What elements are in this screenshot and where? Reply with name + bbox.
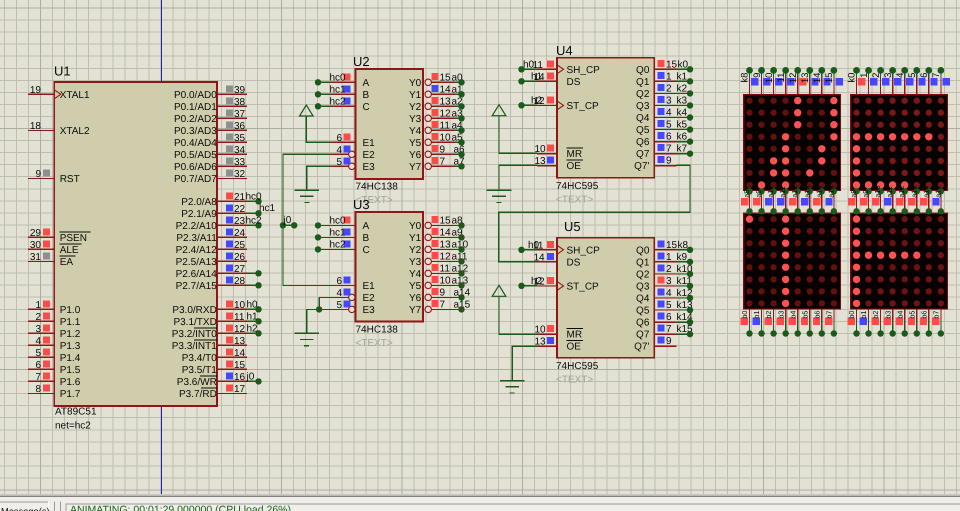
DM1 top pin net 11 bbox=[776, 67, 795, 95]
wire stub net on P2.6 bbox=[247, 270, 262, 276]
wire stub net a6 bbox=[455, 151, 465, 157]
DM3 bottom pin net b7 bbox=[824, 309, 837, 337]
svg-text:b1: b1 bbox=[752, 311, 761, 319]
wire stub net a3 bbox=[455, 115, 465, 121]
DM4 bottom pin net b5 bbox=[907, 309, 920, 337]
U2 enable pin E2 (pin 4) bbox=[331, 145, 375, 161]
U1 pin 10 (P3.0/RXD) bbox=[172, 300, 246, 316]
U3 output pin Y5 (pin 10, net a13) bbox=[409, 275, 469, 292]
svg-text:P2.5/A13: P2.5/A13 bbox=[176, 257, 218, 268]
svg-text:P0.2/AD2: P0.2/AD2 bbox=[174, 114, 217, 125]
svg-text:4: 4 bbox=[666, 108, 672, 119]
U2 output pin Y2 (pin 13, net a2) bbox=[409, 96, 463, 113]
svg-text:b6: b6 bbox=[919, 311, 928, 319]
U4 pin 10 (MR) bbox=[535, 144, 584, 160]
wire stub net k10 bbox=[677, 271, 694, 277]
svg-text:Q1: Q1 bbox=[636, 77, 650, 88]
U5 pin 10 (MR) bbox=[535, 325, 584, 341]
U2 enable pin E1 (pin 6) bbox=[331, 133, 375, 149]
svg-text:Q2: Q2 bbox=[636, 89, 650, 100]
svg-text:11: 11 bbox=[776, 73, 787, 83]
U1 pin 8 (P1.7) bbox=[28, 384, 81, 400]
svg-text:C: C bbox=[363, 245, 370, 256]
svg-text:4: 4 bbox=[35, 336, 41, 347]
wire U2.E2 to U3.E1 (net j0) bbox=[283, 154, 331, 285]
wire stub net hc0 at U3.A bbox=[315, 215, 346, 228]
U3 output pin Y3 (pin 12, net a11) bbox=[409, 251, 468, 268]
svg-text:Q5: Q5 bbox=[636, 125, 650, 136]
svg-text:24: 24 bbox=[234, 228, 246, 239]
U1 pin 1 (P1.0) bbox=[28, 300, 81, 316]
svg-text:10: 10 bbox=[234, 300, 246, 311]
svg-text:7: 7 bbox=[440, 156, 446, 167]
svg-text:4: 4 bbox=[666, 288, 672, 299]
DM1 top pin net 10 bbox=[764, 67, 783, 95]
svg-text:Q7': Q7' bbox=[634, 342, 649, 353]
svg-text:P3.7/RD: P3.7/RD bbox=[179, 389, 217, 400]
svg-text:5: 5 bbox=[666, 120, 672, 131]
wire stub net k1 bbox=[677, 78, 694, 84]
svg-text:19: 19 bbox=[30, 85, 42, 96]
U3 output pin Y7 (pin 7, net a15) bbox=[409, 299, 471, 316]
wire stub net hc1 at U2.B bbox=[315, 84, 346, 97]
svg-text:hc2: hc2 bbox=[330, 239, 347, 250]
U1 pin 32 (P0.7/AD7) bbox=[174, 169, 247, 185]
svg-text:Y2: Y2 bbox=[409, 102, 422, 113]
svg-text:15: 15 bbox=[440, 215, 452, 226]
svg-text:E2: E2 bbox=[363, 150, 376, 161]
DM1 top pin net 13 bbox=[800, 67, 819, 95]
svg-text:P1.4: P1.4 bbox=[60, 353, 81, 364]
ground symbol below U2 bbox=[295, 190, 320, 202]
U1 pin 7 (P1.6) bbox=[28, 372, 81, 388]
DM1/DM3 middle pin net a15 bbox=[825, 186, 837, 215]
U4 output pin Q0 (pin 15) bbox=[636, 59, 688, 76]
svg-text:21: 21 bbox=[234, 192, 246, 203]
svg-text:DS: DS bbox=[567, 257, 581, 268]
svg-text:2: 2 bbox=[666, 83, 672, 94]
svg-text:3: 3 bbox=[666, 276, 672, 287]
svg-text:30: 30 bbox=[30, 240, 42, 251]
svg-text:k8: k8 bbox=[740, 73, 751, 83]
DM2/DM4 middle pin net a13 bbox=[908, 186, 920, 215]
svg-text:P3.2/INT0: P3.2/INT0 bbox=[172, 329, 217, 340]
junction node j0 bbox=[280, 222, 298, 228]
wire power to U4.MR bbox=[499, 116, 537, 154]
svg-text:Q2: Q2 bbox=[636, 269, 650, 280]
svg-text:74HC138: 74HC138 bbox=[356, 182, 399, 193]
svg-text:a10: a10 bbox=[766, 186, 775, 198]
svg-text:E2: E2 bbox=[363, 293, 376, 304]
U5 output pin Q0 (pin 15) bbox=[636, 240, 688, 256]
svg-text:17: 17 bbox=[234, 384, 246, 395]
U1 pin 19 (XTAL1) bbox=[28, 85, 90, 101]
U1 pin 29 (PSEN) bbox=[28, 228, 91, 244]
svg-text:Q1: Q1 bbox=[636, 257, 650, 268]
svg-text:Y6: Y6 bbox=[409, 150, 422, 161]
svg-text:OE: OE bbox=[567, 342, 582, 353]
DM1 top pin net 9 bbox=[752, 67, 771, 95]
svg-text:E3: E3 bbox=[363, 162, 376, 173]
U3 enable pin E2 (pin 4) bbox=[331, 288, 375, 304]
svg-text:10: 10 bbox=[764, 73, 775, 84]
U1 pin 2 (P1.1) bbox=[28, 312, 81, 328]
svg-text:ST_CP: ST_CP bbox=[567, 281, 600, 292]
DM4 bottom pin net b0 bbox=[847, 309, 860, 337]
svg-text:a14: a14 bbox=[921, 186, 930, 198]
svg-text:P2.2/A10: P2.2/A10 bbox=[176, 221, 218, 232]
U1 pin 16 (P3.6/WR) bbox=[177, 372, 247, 388]
svg-text:6: 6 bbox=[919, 73, 930, 78]
U4 output pin Q7 (pin 7) bbox=[636, 144, 687, 161]
U1 pin 30 (ALE) bbox=[28, 240, 82, 256]
svg-text:5: 5 bbox=[907, 73, 918, 78]
wire stub + net label h0 on P3.0/RXD bbox=[247, 299, 262, 312]
svg-text:P3.0/RXD: P3.0/RXD bbox=[172, 305, 216, 316]
svg-text:P0.4/AD4: P0.4/AD4 bbox=[174, 138, 217, 149]
LED matrix DM4 (bottom-right) body bbox=[851, 213, 948, 309]
svg-text:13: 13 bbox=[800, 73, 811, 84]
U1 pin 37 (P0.2/AD2) bbox=[174, 109, 247, 125]
U1 pin 23 (P2.2/A10) bbox=[176, 216, 247, 232]
U3 &lt;TEXT&gt; label bbox=[356, 338, 393, 349]
svg-text:Y4: Y4 bbox=[409, 269, 422, 280]
svg-text:32: 32 bbox=[234, 169, 246, 180]
U1 pin 36 (P0.3/AD3) bbox=[174, 121, 247, 137]
svg-text:P1.3: P1.3 bbox=[60, 341, 81, 352]
U3 input pin A bbox=[331, 216, 370, 232]
U2 output pin Y0 (pin 15, net a0) bbox=[409, 72, 463, 89]
svg-text:4: 4 bbox=[895, 73, 906, 78]
svg-text:14: 14 bbox=[234, 348, 246, 359]
svg-text:36: 36 bbox=[234, 121, 246, 132]
wire stub net k6 bbox=[677, 138, 694, 144]
DM2/DM4 middle pin net a12 bbox=[896, 186, 908, 215]
svg-text:15: 15 bbox=[824, 73, 835, 84]
wire stub net k14 bbox=[677, 319, 694, 325]
wire stub net a11 bbox=[455, 258, 465, 264]
svg-text:k0: k0 bbox=[847, 73, 858, 83]
svg-text:2: 2 bbox=[35, 312, 41, 323]
svg-text:Q7': Q7' bbox=[634, 161, 649, 172]
svg-text:5: 5 bbox=[336, 157, 342, 168]
U2 output pin Y7 (pin 7, net a7) bbox=[409, 156, 465, 173]
wire stub + net label j0 on P3.6/WR bbox=[246, 371, 262, 384]
svg-text:hc0: hc0 bbox=[330, 215, 347, 226]
svg-text:P2.7/A15: P2.7/A15 bbox=[176, 281, 218, 292]
wire stub at U4 input bbox=[518, 78, 537, 84]
U2 output pin Y5 (pin 10, net a5) bbox=[409, 132, 463, 149]
svg-text:a13: a13 bbox=[909, 186, 918, 198]
U4 pin 12 (ST_CP) bbox=[531, 95, 599, 112]
DM2/DM4 middle pin net a8 bbox=[848, 188, 860, 214]
svg-text:74HC595: 74HC595 bbox=[556, 361, 599, 372]
IC U3 74HC138 body bbox=[356, 212, 424, 322]
U5 &lt;TEXT&gt; label bbox=[556, 375, 593, 386]
svg-text:hc2: hc2 bbox=[330, 96, 347, 107]
svg-text:16: 16 bbox=[234, 372, 246, 383]
U2 output pin Y4 (pin 11, net a4) bbox=[409, 120, 463, 137]
svg-text:22: 22 bbox=[234, 204, 246, 215]
U1 pin 33 (P0.6/AD6) bbox=[174, 157, 247, 173]
svg-text:18: 18 bbox=[30, 121, 42, 132]
U1 pin 26 (P2.5/A13) bbox=[176, 252, 247, 268]
U3 output pin Y0 (pin 15, net a8) bbox=[409, 215, 463, 232]
svg-text:9: 9 bbox=[666, 156, 672, 167]
svg-text:2: 2 bbox=[871, 73, 882, 78]
svg-text:Q6: Q6 bbox=[636, 318, 650, 329]
DM3 bottom pin net b0 bbox=[740, 309, 753, 337]
svg-text:5: 5 bbox=[666, 300, 672, 311]
svg-text:a15: a15 bbox=[933, 186, 942, 198]
wire stub net k12 bbox=[677, 295, 694, 301]
svg-text:13: 13 bbox=[440, 96, 452, 107]
U4 &lt;TEXT&gt; label bbox=[556, 195, 593, 206]
U5 output pin Q7' (pin 9) bbox=[634, 336, 676, 353]
svg-text:Y5: Y5 bbox=[409, 138, 422, 149]
U5 output pin Q3 (pin 3) bbox=[636, 276, 692, 293]
svg-text:XTAL2: XTAL2 bbox=[60, 126, 90, 137]
svg-text:Y6: Y6 bbox=[409, 293, 422, 304]
svg-text:37: 37 bbox=[234, 109, 246, 120]
svg-text:38: 38 bbox=[234, 97, 246, 108]
DM1/DM3 middle pin net a14 bbox=[813, 186, 825, 215]
wire U4.Q7' to U5.DS bbox=[499, 165, 690, 262]
svg-text:13: 13 bbox=[234, 336, 246, 347]
DM1/DM3 middle pin net a8 bbox=[741, 188, 753, 214]
svg-text:9: 9 bbox=[440, 144, 446, 155]
U5 pin 11 (SH_CP) bbox=[528, 240, 600, 256]
U5 output pin Q2 (pin 2) bbox=[636, 264, 693, 281]
svg-text:C: C bbox=[363, 102, 370, 113]
U2 enable pin E3 (pin 5) bbox=[331, 157, 375, 173]
svg-text:h1: h1 bbox=[247, 311, 259, 322]
U4 part number 74HC595 bbox=[556, 181, 599, 192]
DM2/DM4 middle pin net a15 bbox=[932, 186, 944, 215]
svg-text:a15: a15 bbox=[826, 186, 835, 198]
U4 pin 14 (DS) bbox=[531, 71, 581, 88]
U3 input pin B bbox=[331, 228, 370, 244]
net label hc1 bbox=[259, 203, 276, 214]
wire stub net k11 bbox=[677, 283, 694, 289]
svg-text:P2.0/A8: P2.0/A8 bbox=[181, 197, 217, 208]
wire stub at U4 input bbox=[518, 102, 537, 108]
svg-text:12: 12 bbox=[440, 108, 452, 119]
DM2 top pin net 2 bbox=[871, 67, 890, 95]
svg-text:1: 1 bbox=[666, 71, 672, 82]
svg-text:P3.5/T1: P3.5/T1 bbox=[182, 365, 217, 376]
svg-text:Q5: Q5 bbox=[636, 306, 650, 317]
svg-text:31: 31 bbox=[30, 252, 42, 263]
svg-text:OE: OE bbox=[567, 161, 582, 172]
svg-text:7: 7 bbox=[35, 372, 41, 383]
wire stub at U4 input bbox=[518, 66, 537, 72]
svg-text:P1.0: P1.0 bbox=[60, 305, 81, 316]
svg-text:P0.5/AD5: P0.5/AD5 bbox=[174, 150, 217, 161]
svg-text:XTAL1: XTAL1 bbox=[60, 90, 90, 101]
U1 pin 39 (P0.0/AD0) bbox=[174, 85, 247, 101]
U1 pin 14 (P3.4/T0) bbox=[182, 348, 247, 364]
DM1 top pin net 15 bbox=[824, 67, 843, 95]
U3 output pin Y2 (pin 13, net a10) bbox=[409, 239, 469, 256]
svg-text:A: A bbox=[363, 221, 370, 232]
svg-text:hc0: hc0 bbox=[330, 72, 347, 83]
svg-text:P3.1/TXD: P3.1/TXD bbox=[173, 317, 216, 328]
svg-text:P3.6/WR: P3.6/WR bbox=[177, 377, 217, 388]
LED matrix DM2 (top-right) body bbox=[851, 95, 948, 191]
DM2 top pin net 6 bbox=[919, 67, 938, 95]
svg-text:hc1: hc1 bbox=[330, 84, 347, 95]
svg-text:Q7: Q7 bbox=[636, 330, 650, 341]
wire stub net a0 bbox=[455, 79, 465, 85]
svg-text:E3: E3 bbox=[363, 305, 376, 316]
svg-text:74HC595: 74HC595 bbox=[556, 181, 599, 192]
svg-text:7: 7 bbox=[440, 299, 446, 310]
wire stub + net label h1 on P3.1/TXD bbox=[247, 311, 262, 324]
svg-text:a10: a10 bbox=[873, 186, 882, 198]
svg-text:15: 15 bbox=[666, 59, 678, 70]
DM3 bottom pin net b1 bbox=[752, 309, 765, 337]
DM2/DM4 middle pin net a14 bbox=[920, 186, 932, 215]
wire stub net on P2.2 bbox=[247, 222, 262, 228]
U5 reference label bbox=[564, 219, 581, 234]
svg-text:a9: a9 bbox=[754, 190, 763, 198]
svg-text:Y2: Y2 bbox=[409, 245, 422, 256]
svg-text:RST: RST bbox=[60, 174, 80, 185]
DM1/DM3 middle pin net a13 bbox=[801, 186, 813, 215]
svg-text:13: 13 bbox=[440, 239, 452, 250]
svg-text:5: 5 bbox=[336, 300, 342, 311]
wire U3.E2 to node on E3 wire bbox=[316, 297, 331, 312]
U2 reference label bbox=[353, 54, 370, 69]
svg-text:b5: b5 bbox=[907, 311, 916, 319]
svg-text:a8: a8 bbox=[742, 190, 751, 198]
U4 pin 11 (SH_CP) bbox=[523, 59, 600, 76]
U3 reference label bbox=[353, 197, 370, 212]
svg-text:AT89C51: AT89C51 bbox=[55, 407, 97, 418]
DM4 bottom pin net b7 bbox=[931, 309, 944, 337]
svg-text:a12: a12 bbox=[897, 186, 906, 198]
svg-text:6: 6 bbox=[35, 360, 41, 371]
U1 pin 17 (P3.7/RD) bbox=[179, 384, 247, 400]
svg-text:b5: b5 bbox=[800, 311, 809, 319]
svg-text:P1.5: P1.5 bbox=[60, 365, 81, 376]
svg-text:a12: a12 bbox=[790, 186, 799, 198]
wire stub net k13 bbox=[677, 307, 694, 313]
svg-text:b4: b4 bbox=[788, 311, 797, 319]
wire stub net a1 bbox=[455, 91, 465, 97]
IC U2 74HC138 body bbox=[356, 69, 424, 179]
svg-text:12: 12 bbox=[788, 73, 799, 84]
net label j0 bbox=[283, 215, 292, 226]
wire power to U2.E1 bbox=[306, 116, 331, 142]
svg-text:ST_CP: ST_CP bbox=[567, 101, 600, 112]
wire stub net hc1 at U3.B bbox=[315, 227, 346, 240]
svg-text:P0.7/AD7: P0.7/AD7 bbox=[174, 174, 217, 185]
svg-text:P2.6/A14: P2.6/A14 bbox=[176, 269, 218, 280]
svg-text:E1: E1 bbox=[363, 281, 376, 292]
DM2 top pin net k0 bbox=[847, 67, 866, 95]
U3 output pin Y6 (pin 9, net a14) bbox=[409, 287, 471, 304]
wire stub net k5 bbox=[677, 126, 694, 132]
DM2 top pin net 4 bbox=[895, 67, 914, 95]
svg-text:P1.6: P1.6 bbox=[60, 377, 81, 388]
wire stub net hc0 at U2.A bbox=[315, 72, 346, 85]
U4 reference label bbox=[556, 43, 573, 58]
U2 part number 74HC138 bbox=[356, 182, 399, 193]
U2 &lt;TEXT&gt; label bbox=[356, 195, 393, 206]
svg-text:P2.3/A11: P2.3/A11 bbox=[176, 233, 217, 244]
wire stub net on P2.1 bbox=[247, 210, 262, 216]
svg-text:35: 35 bbox=[234, 133, 246, 144]
power terminal (VCC arrow) at U5.MR bbox=[492, 285, 506, 296]
U5 pin 13 (OE) bbox=[535, 337, 584, 353]
power terminal (VCC arrow) at U4.MR bbox=[492, 105, 506, 116]
svg-text:12: 12 bbox=[440, 251, 452, 262]
svg-text:9: 9 bbox=[666, 336, 672, 347]
wire stub net a10 bbox=[455, 246, 465, 252]
svg-text:6: 6 bbox=[336, 276, 342, 287]
wire stub net k9 bbox=[677, 259, 694, 265]
svg-text:U5: U5 bbox=[564, 219, 581, 234]
svg-text:2: 2 bbox=[666, 264, 672, 275]
DM2 top pin net 1 bbox=[859, 67, 878, 95]
svg-text:Y5: Y5 bbox=[409, 281, 422, 292]
U5 output pin Q4 (pin 4) bbox=[636, 288, 693, 305]
svg-text:Q3: Q3 bbox=[636, 101, 650, 112]
svg-text:15: 15 bbox=[440, 72, 452, 83]
svg-text:Q0: Q0 bbox=[636, 245, 650, 256]
svg-text:B: B bbox=[363, 90, 370, 101]
U1 pin 24 (P2.3/A11) bbox=[176, 228, 246, 244]
svg-text:3: 3 bbox=[35, 324, 41, 335]
svg-text:Q0: Q0 bbox=[636, 65, 650, 76]
wire stub net a9 bbox=[455, 234, 465, 240]
IC U1 AT89C51 body bbox=[54, 82, 217, 406]
svg-text:11: 11 bbox=[440, 263, 451, 274]
svg-text:<TEXT>: <TEXT> bbox=[356, 338, 393, 349]
U3 output pin Y1 (pin 14, net a9) bbox=[409, 227, 463, 244]
svg-text:PSEN: PSEN bbox=[60, 233, 87, 244]
svg-text:5: 5 bbox=[35, 348, 41, 359]
svg-text:ALE: ALE bbox=[60, 245, 79, 256]
ground symbol below U5 bbox=[500, 381, 525, 393]
U1 reference label bbox=[54, 64, 71, 79]
wire stub net a4 bbox=[455, 127, 465, 133]
DM1/DM3 middle pin net a12 bbox=[789, 186, 801, 215]
wire stub net k4 bbox=[677, 114, 694, 120]
svg-text:1: 1 bbox=[666, 252, 672, 263]
U1 pin 38 (P0.1/AD1) bbox=[174, 97, 247, 113]
ground symbol below U4 bbox=[487, 190, 512, 202]
svg-text:A: A bbox=[363, 78, 370, 89]
svg-text:<TEXT>: <TEXT> bbox=[556, 375, 593, 386]
DM1 top pin net k8 bbox=[740, 67, 759, 95]
svg-text:P3.4/T0: P3.4/T0 bbox=[182, 353, 217, 364]
svg-text:b7: b7 bbox=[931, 311, 940, 319]
U3 enable pin E1 (pin 6) bbox=[331, 276, 375, 292]
DM4 bottom pin net b6 bbox=[919, 309, 932, 337]
svg-text:9: 9 bbox=[35, 169, 41, 180]
svg-text:7: 7 bbox=[931, 73, 942, 78]
svg-text:U2: U2 bbox=[353, 54, 370, 69]
svg-text:3: 3 bbox=[666, 95, 672, 106]
svg-text:a13: a13 bbox=[802, 186, 811, 198]
svg-text:P0.3/AD3: P0.3/AD3 bbox=[174, 126, 217, 137]
U1 pin 18 (XTAL2) bbox=[28, 121, 90, 137]
DM3 bottom pin net b3 bbox=[776, 309, 789, 337]
svg-text:hc1: hc1 bbox=[259, 203, 276, 214]
